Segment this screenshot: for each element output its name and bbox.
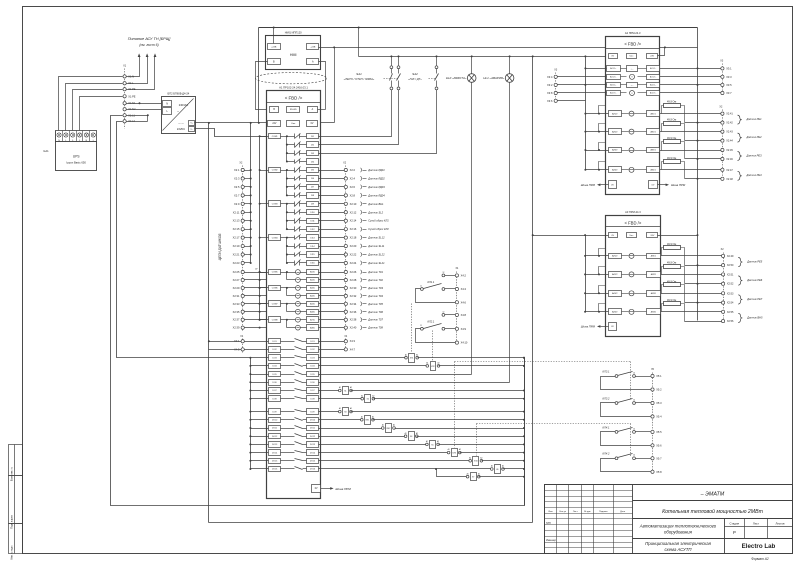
bus 24V DO side [208,123,210,523]
terminal X2:37 [241,318,244,321]
svg-text:Шина ПРМ: Шина ПРМ [581,325,596,329]
svg-text:Дата: Дата [620,511,626,513]
svg-text:Датчик Т06: Датчик Т06 [367,310,383,314]
terminal X2:9 [241,202,244,205]
terminal X2:25 [241,270,244,273]
svg-text:Х2:8: Х2:8 [350,193,356,197]
svg-text:Датчик РЕ3: Датчик РЕ3 [746,153,763,157]
terminal X2:7 [241,194,244,197]
wire X1:N to UPS [59,77,123,131]
terminal X2:40 [319,327,345,329]
terminal X4:7 [319,349,345,351]
svg-text:11: 11 [420,325,422,327]
A2 AI3 row [586,150,609,152]
svg-text:< FBD />: < FBD /> [625,220,642,225]
A1 DO14 output relay [269,450,281,456]
svg-text:Х1:N: Х1:N [128,74,134,78]
terminal X3:7 [721,91,724,94]
svg-text:АО2.1–: АО2.1– [650,84,656,87]
svg-text:HMI: HMI [290,53,297,57]
svg-text:Х2:17: Х2:17 [233,236,240,240]
A1 AI8 input [296,325,301,330]
svg-text:Х2:56: Х2:56 [727,320,734,323]
terminal X2:32 [319,295,345,297]
terminal X2:2 [319,170,345,172]
svg-text:Датчик SL12: Датчик SL12 [367,236,385,240]
relay coil КМ2 [319,428,383,430]
bus A3 0V left [585,236,587,312]
wire DI1 to SA1 pole1 [319,90,392,137]
A1 DI7 input contact [287,186,295,188]
terminal X2:14 [319,220,345,222]
bus A2 0V left [585,57,587,170]
svg-text:Х2:41: Х2:41 [726,113,733,116]
sensor label ВН5 [738,313,742,322]
svg-text:оборудования: оборудования [664,530,693,535]
svg-text:(см. лист 6): (см. лист 6) [139,43,158,47]
svg-text:АИ2/2: АИ2/2 [612,130,617,133]
svg-text:AI4/U: AI4/U [310,295,315,298]
svg-text:КЛ1.1: КЛ1.1 [427,280,434,284]
svg-text:АИ2/2: АИ2/2 [612,273,617,276]
svg-text:Х2:6: Х2:6 [350,185,356,189]
A1 DI3 input contact [287,153,295,155]
svg-text:COM4: COM4 [272,237,279,239]
svg-text:COM2: COM2 [272,170,279,172]
wire 0V loop left [111,116,525,506]
svg-text:DO12: DO12 [272,436,278,438]
A2 AO row 2 [607,75,621,80]
terminal X2:53 [722,292,725,295]
svg-text:Подпись: Подпись [599,511,609,513]
svg-text:Х2:55: Х2:55 [727,311,734,314]
left stamp boxes [9,445,23,476]
svg-text:Датчик РД01: Датчик РД01 [367,168,385,172]
svg-text:Датчик ВН1: Датчик ВН1 [367,202,384,206]
terminal X2:13 [241,219,244,222]
svg-text:Датчик РЕ4: Датчик РЕ4 [746,173,763,177]
svg-text:DO10: DO10 [310,420,316,422]
svg-text:Х3:2: Х3:2 [547,83,553,87]
A1 DI12 input contact [287,229,295,231]
terminal X2:26 [319,272,345,274]
A3 AI3 wire to terminal [661,293,722,295]
terminal X2:47 [721,168,724,171]
bus 24V sensors [250,123,252,263]
relay coil К2 [319,398,363,400]
svg-text:< FBD />: < FBD /> [285,95,303,100]
svg-text:Датчик SL21: Датчик SL21 [367,261,385,265]
svg-text:Датчик ВН5: Датчик ВН5 [746,315,763,319]
A1 DO9 output relay [269,409,281,415]
svg-text:Стадия: Стадия [730,522,740,526]
bus 24V top [259,27,698,29]
svg-text:Датчик SL11: Датчик SL11 [367,244,385,248]
svg-text:UPS: UPS [73,155,80,159]
svg-text:RS-485: RS-485 [290,109,298,111]
A3 0V [609,233,618,238]
terminal Х3:6 [554,99,557,102]
relay coil К3 [319,411,340,413]
svg-text:Котельная тепловой мощностью 2: Котельная тепловой мощностью 2МВт [662,508,764,515]
terminal X2:1 [241,168,244,171]
terminal X2:6 [319,186,345,188]
bus sensors right [697,28,699,321]
A2 0V [609,54,618,59]
svg-text:Х5:1: Х5:1 [656,374,662,378]
A1 DO16 output relay [269,467,281,472]
svg-text:Х2:30: Х2:30 [350,286,357,290]
A1 0V [307,121,318,127]
terminal Х3:2 [554,83,557,86]
wire AO common feed [586,68,607,70]
terminal Х3:4 [554,75,557,78]
svg-text:DO11: DO11 [272,428,278,430]
relay coil КЛ2 [319,365,428,367]
svg-text:Х4:4: Х4:4 [461,287,467,291]
terminal Х1:L1 [123,114,126,117]
svg-text:AI7/U: AI7/U [310,318,315,321]
svg-text:Х3:7: Х3:7 [726,91,732,95]
A1 COM8 [269,317,281,323]
A3 AI3 row [586,293,609,295]
terminal X4:5 [241,348,244,351]
svg-text:Х2:47: Х2:47 [726,169,733,172]
A2 AI4 row [586,169,609,171]
svg-text:БП2 БП60Б-Д4-24: БП2 БП60Б-Д4-24 [168,91,190,95]
A1 AI2 input [296,278,301,283]
svg-text:COM1: COM1 [272,136,279,138]
svg-text:— —: — — [178,123,184,126]
svg-text:Х2:33: Х2:33 [233,302,240,306]
UPS terminal row [56,131,97,142]
svg-text:ГИП: ГИП [546,522,551,525]
svg-text:Uвн: Uвн [630,235,634,237]
terminal X2:52 [685,283,722,285]
svg-text:КМ2: КМ2 [387,428,391,430]
A1 AI6 input [296,309,301,314]
bus 0V COM [259,137,261,320]
svg-text:Х2:43: Х2:43 [726,131,733,134]
A1 AI1 input [296,270,301,275]
sensor label РЕ5 [738,257,742,266]
svg-text:Принципиальная электрическая: Принципиальная электрическая [645,541,711,546]
terminal Х1:PE [123,88,126,91]
svg-text:11: 11 [420,285,422,287]
module A3 body [606,216,661,337]
A1 DI15 input contact [287,254,295,256]
A1 COM5 [269,270,281,275]
terminal X2:38 [319,319,345,321]
A2 AI2 row [586,131,609,133]
svg-text:Х1:L: Х1:L [128,81,134,85]
svg-text:Х3:6: Х3:6 [547,99,553,103]
svg-text:DO14: DO14 [310,452,316,454]
svg-text:Х5:8: Х5:8 [656,470,662,474]
svg-text:«ЛЕТО / ОТКЛ / ЗИМА»: «ЛЕТО / ОТКЛ / ЗИМА» [344,77,375,81]
svg-text:N: N [166,103,168,106]
terminal Х1:L2 [123,120,126,123]
svg-text:Р: Р [733,530,736,535]
svg-text:Electro Lab: Electro Lab [742,543,776,550]
svg-text:Х5:7: Х5:7 [656,456,662,460]
A1 DO10 output relay [269,418,281,423]
terminal X2:23 [241,261,244,264]
terminal Х1:N1 [123,102,126,105]
svg-text:К4: К4 [410,436,412,438]
terminal X2:44 [685,140,721,142]
svg-text:Х2:32: Х2:32 [350,294,357,298]
terminal X2:50 [685,265,722,267]
svg-text:Датчик Т01: Датчик Т01 [367,270,383,274]
terminal X2:12 [319,212,345,214]
terminal X2:28 [319,279,345,281]
A2 AO row 4 [607,91,621,96]
A1 DI11 input contact [287,220,295,222]
terminal X2:22 [319,254,345,256]
sensor label РЕ2 [738,133,742,142]
svg-text:Х2:38: Х2:38 [350,318,357,322]
feeder arrow 1 [127,57,140,77]
svg-text:Датчик РЕ6: Датчик РЕ6 [746,278,763,282]
link KL1 coil to KL1.1 [411,304,413,353]
terminal Х1:PE [123,95,126,98]
A1 COM4 [269,235,281,241]
terminal X2:21 [241,253,244,256]
wire A3 0V feed [533,235,609,237]
svg-text:Шина ПРМ: Шина ПРМ [671,183,686,187]
wire top bus left drop [258,28,260,123]
A1 0V bottom [312,485,321,493]
svg-text:КЛ3.2: КЛ3.2 [603,396,610,400]
svg-text:Сухой сброс КЛ1: Сухой сброс КЛ1 [368,219,389,223]
A1 AI7 input [296,317,301,322]
terminal X2:39 [241,326,244,329]
svg-text:Х2:31: Х2:31 [233,294,240,298]
A1 port A [308,107,318,113]
svg-text:Датчик Т07: Датчик Т07 [367,318,383,322]
A1 DI9 input contact [287,203,295,205]
A1 DI1 input contact [287,136,295,138]
svg-text:Шина ПРМ: Шина ПРМ [581,183,596,187]
svg-text:Х2:24: Х2:24 [350,261,357,265]
svg-text:Х2:42: Х2:42 [726,122,733,125]
svg-text:Х4:9: Х4:9 [461,327,467,331]
svg-text:Х2:16: Х2:16 [350,227,357,231]
svg-text:«ГАЗ / ДТ»: «ГАЗ / ДТ» [408,77,422,81]
svg-text:49,9 Ом: 49,9 Ом [667,262,677,265]
svg-text:Х5:4: Х5:4 [656,415,662,419]
A3 24V [647,233,658,238]
A1 AI3 input [296,286,301,291]
svg-text:АО1.1–: АО1.1– [650,67,656,70]
A1 DO4 output relay [269,364,281,369]
svg-text:14: 14 [633,399,635,401]
A1 AI5 input [296,301,301,306]
svg-text:Датчик РЕ7: Датчик РЕ7 [746,297,763,301]
svg-text:12: 12 [442,311,444,313]
terminal X2:56 [685,321,722,323]
svg-text:К6: К6 [496,469,498,471]
svg-text:Х2:36: Х2:36 [350,310,357,314]
svg-text:Х2:20: Х2:20 [350,244,357,248]
wire DO6 to HL1 [319,382,510,384]
svg-text:Х1:PE: Х1:PE [128,94,136,98]
A1 DI10 input contact [287,212,295,214]
terminal X2:45 [721,148,724,151]
terminal Х1:N2 [123,108,126,111]
svg-text:14: 14 [633,372,635,374]
A1 port B [270,107,279,113]
A1 Uvn [287,121,300,127]
svg-text:COM6: COM6 [272,288,279,290]
svg-text:АО2.У–: АО2.У– [650,92,656,95]
svg-text:№ док.: № док. [584,510,591,513]
svg-text:Х2:50: Х2:50 [727,264,734,267]
svg-text:Х4:7: Х4:7 [350,347,356,351]
svg-text:24V: 24V [272,123,277,125]
svg-text:Сухой сброс КЛ2: Сухой сброс КЛ2 [368,227,389,231]
link KL2 coil to KL2.1 [432,331,434,361]
wire V- 0V [195,129,269,137]
DI group 3 bracket [286,204,288,230]
relay coil КЛ3 [319,452,449,454]
svg-text:SA1: SA1 [356,72,362,76]
svg-text:12: 12 [442,272,444,274]
wire X1:N1 to PSU N [127,103,162,105]
svg-text:DO10: DO10 [272,420,278,422]
svg-text:Х5:6: Х5:6 [656,443,662,447]
svg-text:Х2:27: Х2:27 [233,278,240,282]
svg-text:АИ1/2: АИ1/2 [612,112,617,115]
svg-text:Инв. № подл.: Инв. № подл. [11,545,14,560]
svg-text:Х4:3: Х4:3 [350,339,356,343]
coil return bus [524,358,526,506]
svg-text:Х2:35: Х2:35 [233,310,240,314]
svg-text:Взам. инв. №: Взам. инв. № [11,466,14,481]
terminal Х1:L [123,82,126,85]
svg-text:DO16: DO16 [310,469,316,471]
terminal X3:5 [721,83,724,86]
svg-text:Х4:6: Х4:6 [461,300,467,304]
svg-text:Х2:1: Х2:1 [234,168,240,172]
svg-text:+24В: +24В [271,47,277,49]
svg-text:GA1: GA1 [43,149,49,153]
svg-text:Х2:21: Х2:21 [233,253,240,257]
svg-text:14: 14 [633,428,635,430]
svg-text:Х2:37: Х2:37 [233,318,240,322]
svg-text:Х2:48: Х2:48 [726,178,733,181]
bus DO common [250,358,252,469]
bus switches [359,56,609,58]
svg-text:DO14: DO14 [272,452,278,454]
svg-text:Х2:13: Х2:13 [233,219,240,223]
svg-text:Uвн: Uвн [630,56,634,58]
wire X1:PE to UPS [73,90,123,131]
relay coil КЛ4 [319,460,471,462]
svg-text:COM5: COM5 [272,272,279,274]
svg-text:Х2:44: Х2:44 [726,140,733,143]
wire HMI A to A1 A [319,62,326,110]
svg-text:КЛ4.1: КЛ4.1 [603,425,610,429]
svg-text:Подп. и дата: Подп. и дата [12,515,14,529]
A1 DO8 output relay [269,396,281,402]
svg-text:14: 14 [633,455,635,457]
A1 DO6 output relay [269,380,281,386]
svg-text:AI1/U: AI1/U [310,271,315,274]
terminal X2:27 [241,278,244,281]
svg-text:Формат А2: Формат А2 [751,557,769,561]
terminal X2:29 [241,286,244,289]
terminal X2:19 [241,244,244,247]
terminal X2:5 [241,185,244,188]
svg-text:Х2:2: Х2:2 [350,168,356,172]
A1 DO12 output relay [269,434,281,439]
A1 DI4 input contact [287,161,295,163]
svg-text:Х2:26: Х2:26 [350,270,357,274]
link KL4 coil to KL4 contacts [476,424,478,456]
svg-text:Х5:2: Х5:2 [656,388,662,392]
svg-text:АИ1/1: АИ1/1 [651,255,656,258]
A2 AI1 wire to terminal [660,113,721,115]
terminal X2:3 [241,177,244,180]
svg-text:230VAC: 230VAC [179,103,189,107]
UPS GA1 body [56,142,97,171]
terminal X2:46 [685,158,721,160]
svg-text:Х2:9: Х2:9 [234,202,240,206]
svg-text:Х2:49: Х2:49 [727,255,734,258]
terminal X2:43 [721,130,724,133]
svg-text:–24В: –24В [310,47,316,49]
A3 AI1 wire to terminal [661,255,722,257]
svg-text:Х2:19: Х2:19 [233,244,240,248]
svg-text:DO15: DO15 [310,461,316,463]
svg-text:АИ3/2: АИ3/2 [612,292,617,295]
svg-text:Х2:40: Х2:40 [350,326,357,330]
svg-text:COM8: COM8 [272,319,279,321]
terminal X2:55 [722,310,725,313]
link KL3 coil to KL3 contacts [454,362,456,448]
wire A1 0V up [334,48,336,123]
svg-text:Х2:14: Х2:14 [350,219,357,223]
sensor label РЕ7 [738,295,742,304]
terminal X2:48 [685,178,721,180]
terminal X2:42 [685,122,721,124]
relay coil К5 [319,444,427,446]
feeder arrow 3 [127,57,155,90]
terminal X2:24 [319,262,345,264]
svg-text:~: ~ [177,110,179,114]
svg-text:Х3:5: Х3:5 [726,83,732,87]
svg-text:Х4:2: Х4:2 [461,273,467,277]
svg-text:АИ3/2: АИ3/2 [612,149,617,152]
A2 AI2 wire to terminal [660,131,721,133]
svg-text:Датчик РД03: Датчик РД03 [367,185,385,189]
svg-text:АИ1/1: АИ1/1 [651,112,656,115]
A1 COM2 [269,168,281,173]
svg-text:схема АСУТП: схема АСУТП [665,547,693,552]
terminal X2:51 [722,273,725,276]
wire X1:L to UPS [66,84,123,131]
terminal X2:17 [241,236,244,239]
svg-text:COM3: COM3 [272,204,279,206]
svg-text:Х2:46: Х2:46 [726,158,733,161]
A2 24V [647,54,658,59]
A1 DO5 output relay [269,372,281,377]
svg-text:Х2:12: Х2:12 [350,210,357,214]
svg-text:24V: 24V [650,235,654,237]
sensor label РЕ6 [738,276,742,285]
